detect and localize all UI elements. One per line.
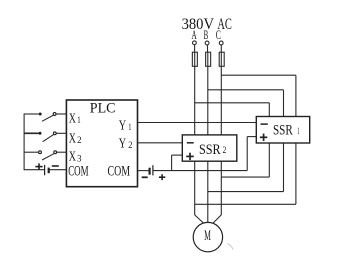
- svg-text:2: 2: [223, 146, 227, 156]
- svg-text:Y: Y: [119, 137, 126, 152]
- svg-text:X: X: [69, 131, 76, 146]
- svg-text:M: M: [204, 228, 211, 244]
- svg-text:SSR: SSR: [273, 123, 293, 139]
- svg-text:1: 1: [297, 127, 300, 137]
- svg-text:X: X: [69, 150, 76, 165]
- svg-text:Y: Y: [119, 119, 126, 134]
- svg-text:380V: 380V: [182, 16, 215, 33]
- svg-text:2: 2: [77, 136, 82, 146]
- svg-text:SSR: SSR: [199, 142, 221, 158]
- svg-text:C: C: [216, 28, 221, 42]
- svg-text:COM: COM: [108, 164, 131, 180]
- svg-text:A: A: [192, 28, 197, 42]
- svg-text:PLC: PLC: [90, 101, 116, 117]
- svg-text:COM: COM: [68, 164, 88, 180]
- svg-text:1: 1: [77, 116, 81, 126]
- svg-text:2: 2: [128, 141, 132, 151]
- svg-text:B: B: [204, 28, 209, 42]
- svg-text:X: X: [69, 111, 76, 126]
- svg-text:1: 1: [128, 123, 131, 133]
